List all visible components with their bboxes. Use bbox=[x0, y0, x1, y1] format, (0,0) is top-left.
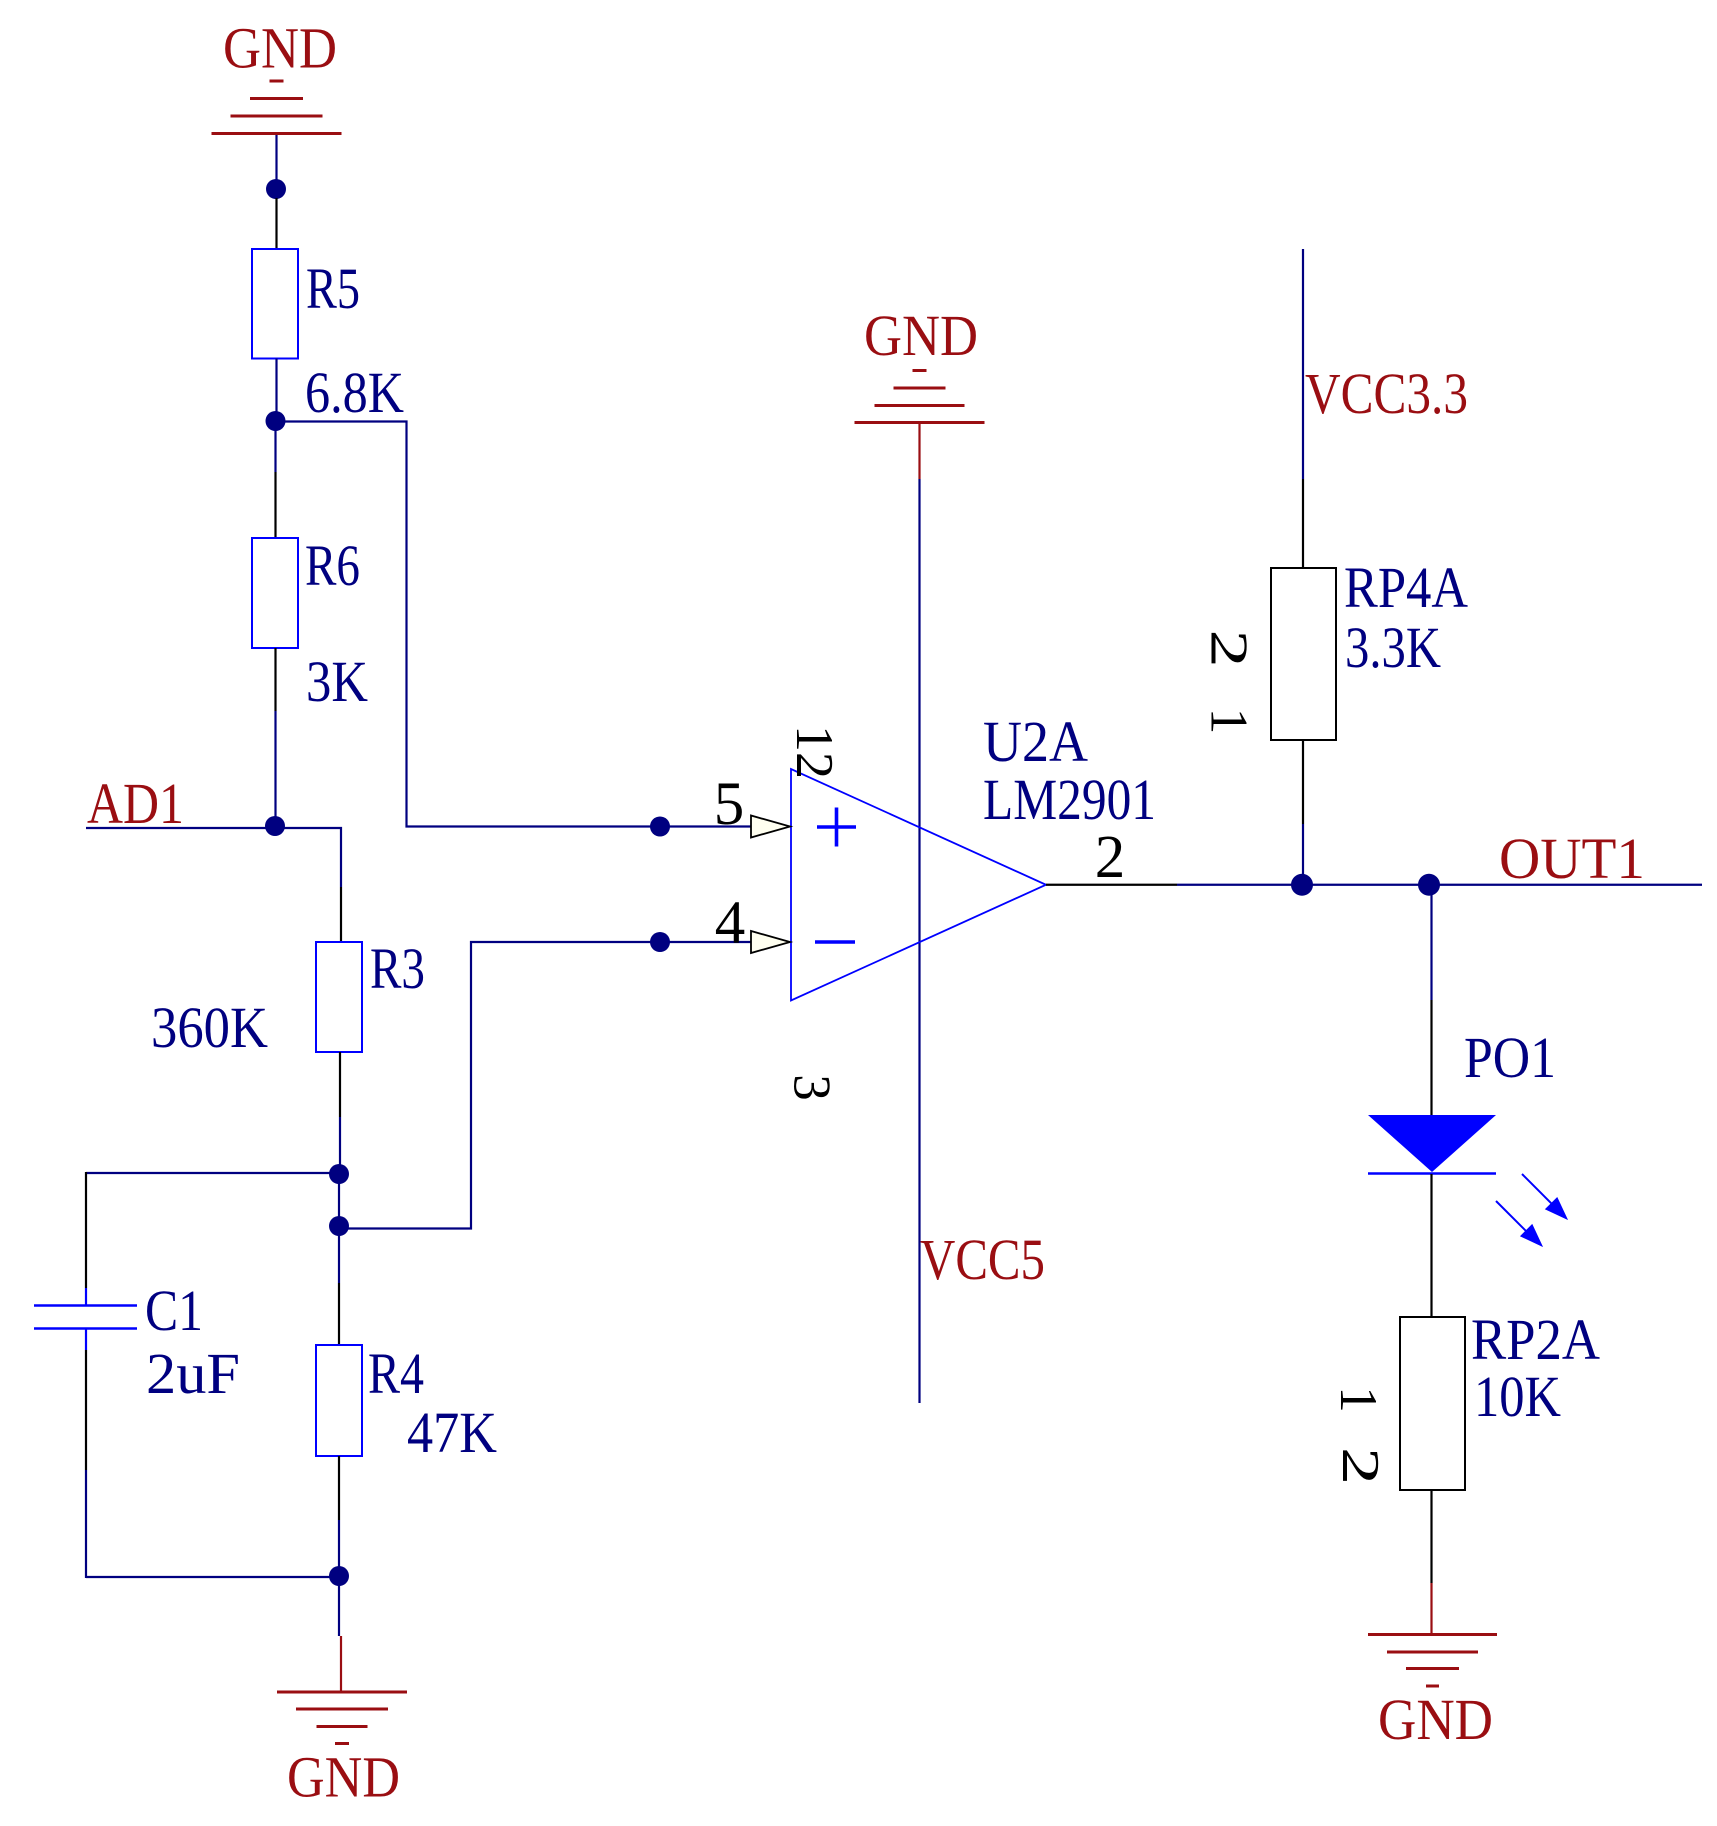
svg-text:RP4A: RP4A bbox=[1344, 555, 1468, 620]
svg-text:R6: R6 bbox=[305, 533, 360, 598]
svg-text:47K: 47K bbox=[407, 1400, 497, 1465]
svg-text:VCC5: VCC5 bbox=[920, 1227, 1045, 1292]
svg-text:AD1: AD1 bbox=[87, 771, 184, 836]
svg-text:5: 5 bbox=[714, 771, 745, 838]
svg-text:VCC3.3: VCC3.3 bbox=[1305, 361, 1468, 426]
svg-text:GND: GND bbox=[287, 1745, 400, 1810]
svg-text:GND: GND bbox=[223, 16, 337, 81]
svg-text:360K: 360K bbox=[151, 995, 268, 1060]
svg-text:1: 1 bbox=[1329, 1386, 1387, 1413]
svg-text:R3: R3 bbox=[370, 936, 425, 1001]
svg-text:R5: R5 bbox=[306, 256, 360, 321]
svg-text:PO1: PO1 bbox=[1464, 1025, 1556, 1090]
svg-text:4: 4 bbox=[715, 890, 746, 957]
svg-text:3K: 3K bbox=[306, 649, 368, 714]
svg-text:2: 2 bbox=[1200, 630, 1258, 668]
svg-text:2uF: 2uF bbox=[146, 1341, 240, 1406]
svg-text:10K: 10K bbox=[1474, 1364, 1561, 1429]
svg-text:GND: GND bbox=[1378, 1687, 1493, 1752]
svg-text:OUT1: OUT1 bbox=[1499, 826, 1645, 891]
svg-text:2: 2 bbox=[1095, 824, 1126, 891]
svg-text:2: 2 bbox=[1331, 1447, 1389, 1485]
svg-text:LM2901: LM2901 bbox=[983, 767, 1156, 832]
svg-text:1: 1 bbox=[1200, 708, 1258, 735]
svg-text:6.8K: 6.8K bbox=[305, 360, 404, 425]
svg-text:3.3K: 3.3K bbox=[1345, 615, 1441, 680]
svg-text:12: 12 bbox=[785, 725, 843, 779]
svg-text:C1: C1 bbox=[145, 1278, 203, 1343]
svg-text:GND: GND bbox=[864, 303, 978, 368]
svg-text:U2A: U2A bbox=[983, 709, 1088, 774]
svg-text:R4: R4 bbox=[368, 1341, 424, 1406]
svg-text:RP2A: RP2A bbox=[1471, 1307, 1600, 1372]
svg-text:3: 3 bbox=[783, 1074, 841, 1101]
